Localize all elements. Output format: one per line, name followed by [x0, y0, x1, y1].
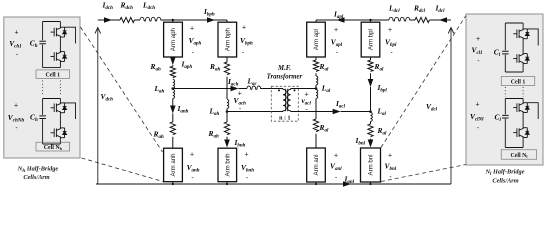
- svg-text:Arm anh: Arm anh: [170, 153, 177, 176]
- stub bnl bottom: [370, 182, 372, 184]
- wire stub aph top: [172, 20, 174, 22]
- voltage Vapl: [331, 27, 343, 57]
- dashed pointer left bottom: [82, 158, 164, 182]
- switch S1 right cellNl: [513, 101, 529, 114]
- inductor Lac: [247, 86, 261, 89]
- voltage Vdcl measurement arrow: [448, 28, 454, 185]
- current Ianl arrow: [343, 181, 351, 187]
- svg-text:Arm apl: Arm apl: [313, 29, 320, 50]
- arm anl box: [307, 148, 326, 182]
- svg-text:+: +: [14, 103, 18, 110]
- voltage vacl: [302, 91, 312, 113]
- inductor lower small coil a-l: [316, 90, 318, 99]
- node b-l tap: [369, 110, 372, 113]
- voltage VchNh: [8, 103, 25, 133]
- resistor Ral lower-a: [313, 119, 318, 132]
- arm aph box: [164, 22, 183, 57]
- polarity dot primary: [278, 89, 280, 91]
- wire: [315, 134, 317, 148]
- svg-text:+: +: [476, 36, 480, 43]
- left inset box Nh half-bridge cells: [4, 17, 80, 158]
- current Iaph arrow: [170, 57, 176, 65]
- wire: [315, 57, 317, 60]
- voltage Vdch measurement arrow: [95, 28, 101, 185]
- capacitor Ch (cell 1): [39, 41, 46, 44]
- wire to tap: [370, 87, 372, 112]
- cell 1 (right inset) wires: [505, 23, 538, 72]
- svg-text:Cell 1: Cell 1: [46, 73, 61, 79]
- svg-text:Cell Nl: Cell Nl: [511, 153, 529, 159]
- svg-text:Transformer: Transformer: [267, 74, 303, 81]
- arm apl box: [307, 22, 326, 57]
- polarity dot secondary: [294, 89, 296, 91]
- transformer secondary winding: [287, 89, 290, 112]
- switch S2 right cellNl: [513, 126, 529, 139]
- cell Nh wires: [43, 99, 76, 145]
- dashed pointer left top: [81, 27, 163, 152]
- resistor Ral lower-b: [370, 122, 372, 125]
- svg-text:+: +: [190, 26, 194, 33]
- resistor Rah upper-a: [172, 65, 174, 66]
- arm bnh box: [218, 148, 237, 182]
- svg-text:+: +: [190, 152, 194, 159]
- capacitor Cl (cell 1 right): [502, 51, 509, 54]
- dotted continuation (right inset): [505, 87, 523, 97]
- voltage Vanl: [330, 152, 342, 181]
- label Cell Nh: [36, 142, 70, 151]
- right inset box Nl half-bridge cells: [466, 14, 543, 165]
- svg-text:Cell Nh: Cell Nh: [44, 145, 63, 151]
- junction dot b-l top: [369, 19, 371, 21]
- svg-text:Arm aph: Arm aph: [170, 28, 177, 51]
- wire ac top right: [291, 88, 316, 90]
- label Nl Half-Bridge Cells/Arm: [484, 169, 524, 185]
- voltage VclNl: [470, 102, 484, 133]
- resistor Rah upper-b: [224, 62, 229, 75]
- arm bph box: [218, 22, 237, 57]
- voltage Vanh: [187, 152, 200, 183]
- inductor lower-a small coil: [173, 90, 175, 99]
- transformer dashed box: [271, 86, 298, 121]
- resistor Rdch: [120, 17, 134, 22]
- wire: [172, 114, 174, 123]
- voltage Vaph: [189, 26, 202, 57]
- stub anl bottom: [315, 182, 317, 184]
- stub anh bottom: [172, 182, 174, 184]
- wire stub apl top: [315, 20, 317, 22]
- current Ianh arrow: [170, 106, 176, 114]
- arm bpl box: [361, 22, 380, 57]
- dashed pointer right top: [381, 16, 466, 148]
- inductor Ldcl: [389, 17, 410, 21]
- wire: [226, 57, 228, 62]
- current Iacl arrow: [333, 109, 341, 115]
- resistor Ral upper-b: [368, 60, 373, 71]
- node a-l tap: [315, 87, 318, 90]
- node b-h tap: [226, 110, 229, 113]
- label Cell 1 (left): [36, 70, 70, 79]
- resistor Rah lower-b: [224, 122, 229, 135]
- resistor Ral upper-a: [313, 60, 318, 71]
- resistor Rdcl: [415, 17, 429, 22]
- svg-text:Arm anl: Arm anl: [313, 155, 320, 176]
- svg-text:Cells/Arm: Cells/Arm: [23, 174, 49, 181]
- svg-text:Arm bnh: Arm bnh: [225, 153, 232, 176]
- junction dot a-h top: [172, 19, 174, 21]
- current Idcl arrow: [439, 17, 447, 23]
- svg-text:+: +: [334, 27, 338, 34]
- label Nh Half-Bridge Cells/Arm: [17, 166, 59, 181]
- switch S1 cellNh: [51, 101, 67, 114]
- top-left dc rail: [98, 19, 227, 21]
- wire stub bph top: [226, 20, 228, 22]
- stub bnh bottom: [226, 182, 228, 184]
- voltage Vch1: [9, 30, 21, 59]
- top-right dc rail: [316, 19, 451, 21]
- wire a-h mid: [172, 99, 174, 107]
- svg-text:+: +: [244, 152, 248, 159]
- svg-text:n : 1: n : 1: [279, 116, 290, 122]
- svg-text:+: +: [334, 152, 338, 159]
- svg-text:+: +: [388, 27, 392, 34]
- dashed pointer right bottom: [381, 165, 466, 182]
- svg-text:M.F.: M.F.: [277, 65, 291, 72]
- svg-text:+: +: [304, 91, 308, 98]
- wire ac bottom right: [291, 111, 371, 113]
- svg-text:Arm bpl: Arm bpl: [368, 29, 375, 50]
- wire ac bottom (phase b to transformer): [227, 111, 283, 113]
- dotted continuation (left inset): [43, 81, 61, 97]
- wire b crossing: [226, 77, 228, 99]
- svg-text:Cells/Arm: Cells/Arm: [492, 177, 518, 184]
- svg-text:Arm bnl: Arm bnl: [368, 155, 375, 176]
- capacitor Cl (cell Nl): [502, 115, 509, 118]
- wire a-l crossing: [315, 99, 317, 120]
- svg-text:+: +: [242, 25, 246, 32]
- switch S2 cellNh: [51, 126, 67, 139]
- current Ibpl arrow: [370, 73, 372, 79]
- cell Nl wires: [505, 99, 538, 148]
- bottom dc rail: [96, 183, 451, 185]
- current Ibph arrow: [207, 17, 215, 23]
- inductor Lah upper-b: [227, 100, 229, 109]
- transformer core: [286, 89, 288, 111]
- voltage Vbph: [240, 25, 253, 57]
- current Idch arrow: [104, 17, 112, 23]
- wire: [172, 137, 174, 148]
- switch S1 cell1: [51, 26, 67, 39]
- voltage Vach: [234, 90, 247, 113]
- switch S1 right cell1: [513, 27, 529, 40]
- arm bnl box: [361, 148, 381, 182]
- transformer primary winding: [283, 89, 286, 112]
- wire ac top (phase a to transformer): [173, 88, 283, 90]
- svg-text:+: +: [476, 102, 480, 109]
- svg-text:Cell 1: Cell 1: [511, 80, 526, 86]
- label M.F. Transformer: [267, 65, 303, 81]
- current Iapl arrow: [337, 17, 345, 23]
- inductor Lal upper-a: [315, 73, 317, 76]
- current Ibnh arrow: [226, 137, 228, 140]
- node a-h tap: [172, 87, 175, 90]
- wire stub bpl top: [370, 20, 372, 22]
- inductor Lal lower-b: [371, 113, 373, 122]
- current Iach arrow: [231, 86, 239, 92]
- inductor Lah upper-a: [173, 79, 175, 88]
- current Ibnl arrow: [370, 138, 372, 141]
- svg-text:+: +: [388, 153, 392, 160]
- inductor Ldch: [140, 17, 161, 21]
- svg-text:Arm bph: Arm bph: [225, 28, 232, 51]
- switch S2 cell1: [51, 50, 67, 63]
- switch S2 right cell1: [513, 52, 529, 65]
- svg-text:+: +: [15, 30, 19, 37]
- resistor Rah lower-a: [170, 122, 175, 135]
- arm anh box: [164, 148, 183, 182]
- label Cell Nl: [501, 150, 536, 159]
- voltage Vbnh: [241, 152, 254, 183]
- cell 1 (left inset) wires: [43, 22, 76, 68]
- capacitor Ch (cell Nh): [39, 116, 46, 119]
- label Cell 1 (right): [501, 77, 535, 86]
- voltage Vbpl: [385, 27, 397, 57]
- voltage Vbnl: [385, 153, 397, 182]
- wire: [370, 57, 372, 60]
- voltage Vcl1: [472, 36, 483, 65]
